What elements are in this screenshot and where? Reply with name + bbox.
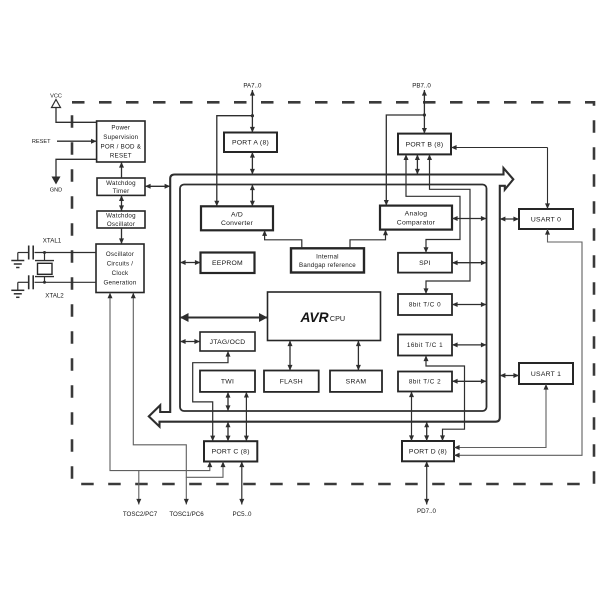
- svg-text:Generation: Generation: [103, 280, 136, 287]
- svg-text:GND: GND: [50, 188, 62, 194]
- svg-text:USART 0: USART 0: [531, 216, 561, 223]
- svg-text:CPU: CPU: [330, 314, 345, 323]
- svg-text:Watchdog: Watchdog: [106, 213, 136, 220]
- svg-text:PD7..0: PD7..0: [417, 508, 436, 515]
- svg-text:RESET: RESET: [32, 139, 51, 145]
- svg-text:Watchdog: Watchdog: [106, 180, 136, 187]
- svg-text:RESET: RESET: [110, 153, 132, 160]
- svg-text:PC5..0: PC5..0: [233, 511, 252, 518]
- svg-text:Internal: Internal: [316, 253, 339, 260]
- svg-text:PORT A (8): PORT A (8): [232, 140, 269, 147]
- svg-text:Bandgap reference: Bandgap reference: [299, 262, 356, 269]
- svg-text:16bit T/C 1: 16bit T/C 1: [407, 342, 443, 349]
- svg-text:PORT D (8): PORT D (8): [409, 449, 447, 456]
- svg-text:FLASH: FLASH: [280, 379, 303, 386]
- svg-text:Supervision: Supervision: [103, 134, 138, 141]
- svg-text:A/D: A/D: [231, 211, 243, 218]
- svg-text:USART 1: USART 1: [531, 371, 561, 378]
- svg-text:Analog: Analog: [405, 211, 428, 218]
- svg-text:PA7..0: PA7..0: [243, 83, 262, 90]
- svg-text:TOSC1/PC6: TOSC1/PC6: [169, 511, 204, 518]
- svg-text:Power: Power: [111, 125, 130, 132]
- svg-text:8bit T/C 0: 8bit T/C 0: [409, 302, 441, 309]
- svg-text:Clock: Clock: [112, 270, 129, 277]
- svg-text:SPI: SPI: [419, 260, 431, 267]
- svg-text:Timer: Timer: [113, 188, 130, 195]
- svg-text:PORT B (8): PORT B (8): [406, 141, 444, 148]
- svg-text:Circuits /: Circuits /: [107, 261, 134, 268]
- svg-text:Oscillator: Oscillator: [107, 221, 135, 228]
- svg-text:TWI: TWI: [221, 379, 234, 386]
- svg-text:XTAL1: XTAL1: [43, 238, 62, 245]
- svg-text:8bit T/C 2: 8bit T/C 2: [409, 379, 441, 386]
- svg-text:POR / BOD &: POR / BOD &: [101, 143, 142, 150]
- svg-text:Comparator: Comparator: [397, 219, 436, 226]
- svg-text:SRAM: SRAM: [346, 379, 367, 386]
- svg-text:XTAL2: XTAL2: [45, 293, 64, 300]
- svg-text:TOSC2/PC7: TOSC2/PC7: [123, 511, 158, 518]
- svg-text:JTAG/OCD: JTAG/OCD: [210, 339, 246, 346]
- svg-text:Converter: Converter: [221, 220, 254, 227]
- svg-text:PORT C (8): PORT C (8): [212, 449, 250, 456]
- svg-text:Oscillator: Oscillator: [106, 251, 134, 258]
- svg-text:EEPROM: EEPROM: [212, 260, 243, 267]
- svg-text:PB7..0: PB7..0: [412, 83, 431, 90]
- svg-text:AVR: AVR: [299, 310, 328, 325]
